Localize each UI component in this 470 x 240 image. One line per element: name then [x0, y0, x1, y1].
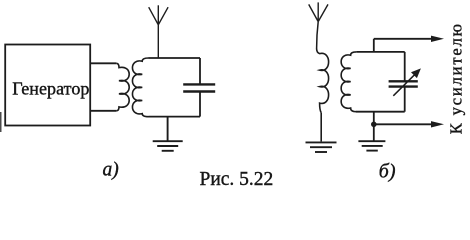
ground (circuit b right) — [358, 141, 385, 150]
ground (circuit a) — [153, 117, 183, 151]
variable capacitor arrowhead — [411, 68, 421, 78]
svg-text:а): а) — [103, 160, 119, 181]
wire tank top (circuit b) — [356, 51, 404, 53]
wire output bottom with arrow — [374, 123, 432, 125]
arrowhead output bottom — [431, 121, 444, 127]
capacitor C1 bottom plate — [183, 90, 215, 92]
wire tank top (circuit a) — [149, 57, 201, 59]
inductor L3 antenna coil (circuit b) — [317, 49, 329, 113]
wire tank right lower — [199, 92, 201, 117]
wire tank right upper — [199, 58, 201, 84]
inductor L2 secondary (circuit a) — [132, 58, 148, 117]
wire tank right upper (circuit b) — [404, 52, 406, 81]
wire generator bottom to coil — [90, 110, 116, 112]
wire ground stem (circuit b) — [373, 112, 375, 142]
wire antenna lead down (circuit b) — [317, 22, 319, 49]
svg-text:Генератор: Генератор — [12, 78, 89, 98]
junction dot — [371, 122, 377, 128]
wire output top with arrow — [374, 38, 432, 40]
inductor L4 secondary (circuit b) — [341, 52, 356, 112]
arrowhead output top — [431, 36, 444, 42]
scan artifact left edge — [0, 112, 2, 132]
wire generator top to coil — [90, 62, 116, 64]
svg-text:б): б) — [379, 160, 396, 182]
variable capacitor C2 top plate — [389, 80, 418, 82]
wire tank right lower (circuit b) — [404, 87, 406, 112]
svg-text:Рис. 5.22: Рис. 5.22 — [200, 169, 274, 190]
antenna (circuit a) — [149, 5, 168, 58]
variable capacitor arrow — [393, 74, 415, 96]
svg-text:К усилителю: К усилителю — [446, 22, 465, 134]
wire coil to ground (circuit b) — [320, 113, 322, 142]
ground (circuit b left) — [306, 142, 337, 152]
antenna (circuit b) — [309, 2, 328, 21]
variable capacitor C2 bottom plate — [389, 85, 418, 87]
capacitor C1 top plate — [183, 83, 215, 85]
wire tank bottom (circuit a) — [149, 116, 201, 118]
inductor L1 primary (circuit a) — [116, 63, 129, 110]
wire output stub top — [373, 39, 375, 52]
wire tank bottom (circuit b) — [356, 111, 405, 113]
generator box — [5, 45, 90, 126]
